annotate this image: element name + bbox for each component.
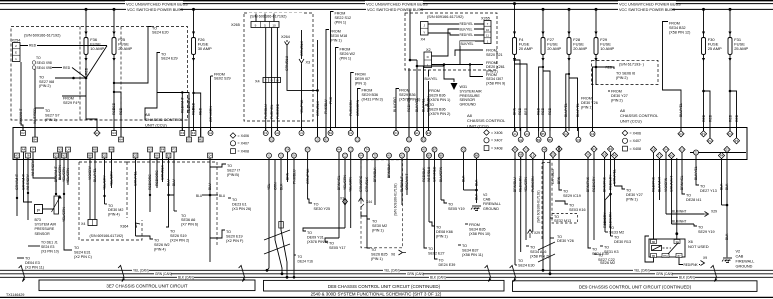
- svg-text:BLK/YEL: BLK/YEL: [415, 98, 419, 112]
- break mark on CAN buss: [19, 265, 25, 281]
- svg-text:SE30 M18: SE30 M18: [330, 34, 347, 38]
- svg-text:TO: TO: [569, 204, 574, 208]
- pin Y3 (X406 diamond): [523, 146, 529, 152]
- svg-text:TO: TO: [232, 198, 237, 202]
- pin M6 (X408 square): [109, 147, 114, 152]
- wire GRN/BLK mid: [366, 160, 368, 247]
- wire RED/GRN drop: [428, 70, 430, 130]
- wire out of pin Y1: [268, 156, 270, 160]
- pin J1 (X407 circle): [299, 131, 304, 136]
- svg-text:DE28 I41: DE28 I41: [686, 198, 701, 202]
- svg-text:TO: TO: [554, 215, 559, 219]
- node TO DE30 Y26: [550, 235, 574, 243]
- svg-text:D1: D1: [394, 131, 398, 135]
- svg-text:J8: J8: [27, 154, 30, 158]
- svg-text:(PIN 4): (PIN 4): [154, 247, 166, 251]
- pin inner right (circle): [694, 150, 699, 155]
- svg-text:A4: A4: [22, 148, 26, 152]
- svg-text:GRY/BLU: GRY/BLU: [551, 169, 555, 184]
- svg-text:(PIN 4): (PIN 4): [108, 213, 120, 217]
- svg-text:BLK: BLK: [475, 193, 479, 200]
- wire out of pin G6: [293, 156, 295, 160]
- wire into pin K3: [181, 128, 183, 134]
- svg-text:= X406: = X406: [491, 131, 503, 135]
- wire YEL/GRY 1: [104, 160, 106, 205]
- wire out of pin K6: [156, 156, 158, 160]
- svg-text:GRY/WHT: GRY/WHT: [15, 174, 19, 190]
- node TO DE30 R13: [611, 236, 632, 244]
- wire into pin C1: [350, 128, 352, 134]
- svg-text:M6: M6: [110, 148, 114, 152]
- svg-text:RED/GRN: RED/GRN: [519, 176, 523, 192]
- node TO SE34 A16: [526, 246, 549, 259]
- wire out of pin W2: [671, 156, 673, 160]
- pin C3 (X407 circle): [348, 147, 353, 152]
- svg-text:(X431 PIN 3): (X431 PIN 3): [362, 97, 383, 101]
- pin C2 (X407 circle): [343, 153, 348, 158]
- junction F26 branch: [192, 92, 194, 94]
- wire BLU 1: [169, 160, 175, 196]
- svg-text:W31: W31: [460, 85, 468, 89]
- wire out of pin J8: [27, 156, 29, 160]
- wire BRN/BLK short: [388, 160, 390, 179]
- wire PUR/GRN low: [532, 158, 534, 232]
- wire RED/GRY fork b: [610, 194, 612, 236]
- svg-text:C1: C1: [349, 131, 353, 135]
- wire relay 30 feed: [676, 158, 678, 240]
- wire RED/WHT drop2: [181, 93, 183, 131]
- svg-text:YEL/PNK: YEL/PNK: [300, 99, 304, 114]
- wire F36 drop: [86, 9, 97, 127]
- svg-text:TO: TO: [181, 214, 186, 218]
- svg-text:(PIN 1): (PIN 1): [330, 38, 342, 42]
- svg-text:SENSOR: SENSOR: [35, 232, 51, 236]
- wire out of pin B7: [434, 150, 436, 160]
- wire BLK/YEL drop2: [423, 66, 425, 137]
- wire GRN/WHT relay: [671, 158, 673, 224]
- wire BLU 2: [173, 160, 175, 196]
- svg-text:BLU: BLU: [172, 179, 176, 186]
- wire SE02 S29 drop: [210, 76, 212, 130]
- wire X3 drop: [301, 64, 303, 131]
- svg-text:RED/PNK: RED/PNK: [652, 176, 656, 192]
- wire GRN CAN drop: [275, 160, 282, 274]
- svg-text:DE04 E3: DE04 E3: [25, 261, 40, 265]
- svg-text:DE30 Y27: DE30 Y27: [611, 94, 628, 98]
- node FROM DE09 I07 (PIN 1): [351, 73, 370, 86]
- pin Q2 (X408 square): [102, 153, 107, 158]
- wire out of pin Y3: [525, 150, 527, 160]
- svg-text:RED: RED: [85, 67, 89, 75]
- svg-text:RED: RED: [192, 107, 196, 115]
- svg-text:TO SE06 I6: TO SE06 I6: [616, 72, 635, 76]
- svg-text:D1: D1: [592, 147, 596, 151]
- pin E4 (X406 diamond): [94, 130, 100, 136]
- wire SE29 X578 drop: [395, 91, 397, 130]
- svg-text:C2: C2: [343, 154, 347, 158]
- svg-text:(X579 PIN 2): (X579 PIN 2): [429, 112, 450, 116]
- svg-text:TO: TO: [598, 254, 603, 258]
- wire PNK/BLU long: [293, 160, 295, 278]
- junction below F28: [568, 73, 570, 75]
- junction X2 region a: [409, 59, 412, 62]
- wire out of pin L4: [67, 150, 69, 160]
- svg-text:J2: J2: [316, 138, 319, 142]
- svg-text:BLK (CAN): BLK (CAN): [430, 276, 446, 280]
- svg-text:T4: T4: [365, 148, 369, 152]
- svg-text:SE24 E29: SE24 E29: [161, 57, 178, 61]
- svg-text:ORG/GRN: ORG/GRN: [356, 99, 360, 116]
- wire F29 drop: [595, 9, 597, 85]
- pin V4 (X406 diamond): [663, 146, 669, 152]
- svg-text:NOT USED: NOT USED: [688, 244, 709, 249]
- svg-text:FROM: FROM: [486, 73, 497, 77]
- svg-text:TO: TO: [372, 220, 377, 224]
- svg-text:TO: TO: [298, 255, 303, 259]
- node TO SE24 E20: [148, 26, 169, 34]
- junction PNK/BLU can: [293, 276, 296, 279]
- pin E2 (X408 square): [166, 153, 171, 158]
- svg-text:RED: RED: [728, 114, 732, 122]
- wire out of pin S3: [726, 150, 728, 160]
- pin H4 (X407 circle): [337, 147, 342, 152]
- junction below F30: [702, 90, 705, 93]
- fuse F27: [541, 32, 562, 62]
- svg-text:Y6: Y6: [586, 153, 590, 157]
- svg-text:SE29 B36: SE29 B36: [399, 93, 416, 97]
- legend X406/X407/X408 (middle): [484, 130, 503, 151]
- wire BRN/BLK: [374, 160, 376, 206]
- svg-text:10 AMP: 10 AMP: [90, 46, 104, 51]
- svg-text:SE29 B36: SE29 B36: [429, 107, 446, 111]
- svg-text:(PIN 2): (PIN 2): [611, 98, 623, 102]
- pin B8 (X407 circle): [439, 153, 444, 158]
- svg-text:(X2 PIN F): (X2 PIN F): [226, 239, 243, 243]
- wire out of pin A3: [16, 156, 18, 160]
- wire YEL CAN drop: [267, 160, 269, 271]
- wire WHT/GRY 2: [33, 158, 56, 190]
- svg-text:SE29 IC19: SE29 IC19: [563, 194, 581, 198]
- svg-text:11: 11: [486, 34, 489, 38]
- svg-text:B2: B2: [324, 138, 328, 142]
- svg-text:BLK (CAN): BLK (CAN): [178, 276, 194, 280]
- svg-text:P: P: [37, 208, 40, 213]
- wire SE34 B32 drop: [663, 23, 682, 130]
- junction CAN yel: [266, 269, 269, 272]
- junction on switched buss: [568, 8, 571, 11]
- svg-text:TO: TO: [170, 230, 175, 234]
- svg-text:P6: P6: [613, 154, 617, 158]
- svg-text:(X58 PIN 10): (X58 PIN 10): [469, 232, 490, 236]
- svg-text:Q4: Q4: [208, 154, 212, 158]
- wire out of pin C3: [350, 150, 352, 160]
- wire X265 pin A drop: [265, 28, 267, 131]
- junction BLU tie: [209, 194, 212, 197]
- pin K1 (X408 square): [191, 131, 196, 136]
- pin J5 (X406 diamond): [556, 146, 562, 152]
- node FROM SE34 B35: [465, 223, 490, 236]
- border frame top: [0, 0, 773, 2]
- svg-text:SE26 W2: SE26 W2: [154, 243, 170, 247]
- node TO SE30 Y25: [314, 202, 331, 210]
- svg-text:TO: TO: [609, 226, 614, 230]
- wire RED diag to junction: [52, 66, 86, 78]
- wire WHT/BLU: [428, 160, 430, 223]
- node TO SE26 S19 (X24 PIN 2): [170, 230, 189, 243]
- wire into pin P1: [703, 128, 705, 134]
- svg-text:BLU: BLU: [196, 194, 203, 198]
- svg-text:VCC UNSWITCHED POWER BUSS: VCC UNSWITCHED POWER BUSS: [619, 2, 681, 6]
- pin T4 (X407 circle): [365, 147, 370, 152]
- dashed box S/N right: [542, 163, 552, 239]
- pin P1 (X406 diamond): [700, 131, 706, 137]
- svg-text:T5: T5: [373, 154, 377, 158]
- node TO DE24 E39: [435, 256, 456, 267]
- wire into pin A2: [520, 128, 522, 140]
- svg-text:= X407: = X407: [630, 139, 642, 143]
- svg-text:TO: TO: [557, 235, 562, 239]
- svg-text:87: 87: [677, 254, 681, 258]
- svg-text:X364: X364: [120, 224, 128, 228]
- svg-text:= X408: = X408: [238, 150, 250, 154]
- svg-text:PUR/WHT: PUR/WHT: [400, 176, 404, 192]
- junction sensor a: [16, 197, 18, 199]
- junction BLK r: [726, 204, 729, 207]
- svg-text:Q6: Q6: [652, 148, 656, 152]
- svg-text:WHT/GRY: WHT/GRY: [31, 159, 35, 176]
- svg-text:RED/BLK: RED/BLK: [422, 167, 426, 182]
- svg-text:(PIN 1): (PIN 1): [355, 81, 367, 85]
- svg-text:(X3 PIN 26): (X3 PIN 26): [232, 207, 251, 211]
- pin G1 (X407 circle): [208, 131, 213, 136]
- wire WHT/GRY 3: [94, 160, 96, 220]
- wire RED/BLK: [423, 160, 425, 246]
- svg-text:GRN/BLK: GRN/BLK: [161, 164, 165, 180]
- svg-text:TO: TO: [429, 103, 434, 107]
- wire VIO/GRY: [89, 160, 91, 220]
- pin B4 (X408 square): [33, 137, 38, 142]
- svg-text:TO: TO: [161, 52, 166, 56]
- svg-text:RED: RED: [63, 66, 71, 70]
- svg-text:G7: G7: [306, 148, 310, 152]
- wire GRY/WHT 2: [24, 158, 33, 202]
- svg-text:YEL/GRY: YEL/GRY: [110, 171, 114, 186]
- junction on switched buss: [113, 8, 116, 11]
- pin M1 (X407 circle): [405, 147, 410, 152]
- wire inner right: [690, 152, 746, 154]
- svg-text:BRN/YEL: BRN/YEL: [337, 175, 341, 190]
- wire out of pin U3: [681, 150, 683, 160]
- wire out of pin Y6: [587, 155, 589, 160]
- wire BRN/YEL relay: [681, 160, 683, 193]
- svg-text:BLK (CAN): BLK (CAN): [679, 276, 695, 280]
- svg-text:SE24 E3: SE24 E3: [41, 245, 54, 249]
- svg-text:X2: X2: [462, 148, 466, 152]
- junction CAN yel right: [542, 269, 545, 272]
- svg-text:X264: X264: [281, 35, 290, 39]
- svg-text:E3: E3: [427, 131, 431, 135]
- svg-text:BRN: BRN: [557, 176, 561, 184]
- wire into pin B4: [34, 128, 36, 140]
- svg-text:X265: X265: [231, 23, 240, 27]
- junction below F4: [513, 59, 515, 61]
- wire X265 pin B drop: [271, 28, 273, 138]
- svg-text:DE23 E1: DE23 E1: [232, 202, 247, 206]
- label RED (X254 pin2): [28, 43, 37, 48]
- pin D1 (X407 circle): [394, 131, 399, 136]
- wire branch of F27: [539, 67, 543, 131]
- wire ORG/YEL: [344, 160, 346, 229]
- svg-text:YEL/GRN: YEL/GRN: [349, 177, 353, 192]
- svg-text:RED: RED: [541, 107, 545, 115]
- wire branch of F30: [704, 91, 711, 137]
- pin J2 (X407 circle): [315, 137, 320, 142]
- junction BLU: [167, 194, 169, 196]
- svg-text:SE33 M2: SE33 M2: [609, 230, 624, 234]
- wire out of pin F3: [173, 150, 175, 160]
- wire out of pin X2: [463, 150, 465, 160]
- label BLK/YEL a: [459, 27, 474, 32]
- svg-text:= X408: = X408: [491, 147, 503, 151]
- wire out of pin Q2: [104, 156, 106, 160]
- junction below F27: [542, 66, 544, 68]
- svg-text:(S/N 609166-617192): (S/N 609166-617192): [427, 15, 464, 19]
- pin B6 (X407 circle): [548, 137, 553, 142]
- connector X3 inline: [340, 197, 348, 206]
- connector X4: [421, 22, 429, 42]
- wire TO SE27 I68 tie: [55, 77, 86, 79]
- node TO DE24 Y16: [294, 255, 313, 264]
- svg-text:YEL/GRN: YEL/GRN: [524, 177, 528, 192]
- node TO DE09 Y31: [303, 228, 345, 244]
- node TO DE28 I41: [682, 192, 701, 202]
- node TO SE34 B37: [458, 244, 483, 257]
- label YEL (CAN): [633, 268, 650, 273]
- svg-text:(X578 PIN 1): (X578 PIN 1): [429, 98, 450, 102]
- node TO SE27 I7 (PIN B): [210, 164, 240, 177]
- node TO SE24 E29: [157, 52, 178, 60]
- svg-text:RED: RED: [112, 107, 116, 115]
- pin Q1 (X408 square): [54, 153, 59, 158]
- node FROM SE34 I307 (X58 PIN 9): [469, 63, 505, 85]
- svg-text:B8: B8: [439, 154, 443, 158]
- junction sensor b: [27, 192, 29, 194]
- wire into pin F1: [265, 128, 267, 134]
- svg-text:SE29 Y19: SE29 Y19: [698, 230, 715, 234]
- svg-text:K4: K4: [564, 132, 568, 136]
- svg-text:20 AMP: 20 AMP: [118, 46, 132, 51]
- svg-text:RED/ORG: RED/ORG: [148, 174, 152, 190]
- junction YEL/GRN: [63, 193, 65, 195]
- node FROM SE26 W2 (PIN 1): [336, 48, 356, 61]
- wire BLK/YEL inner: [695, 155, 697, 183]
- node TO DE08 K66: [429, 222, 453, 238]
- svg-text:PUR/GRN: PUR/GRN: [349, 100, 353, 116]
- node TO SE29 Y19: [694, 224, 715, 234]
- svg-text:(PIN 1): (PIN 1): [335, 20, 347, 24]
- wire F28 drop: [568, 9, 570, 131]
- pin X2 (X407 circle): [461, 147, 466, 152]
- svg-text:TO: TO: [626, 189, 631, 193]
- pin A3 (X408 square): [15, 153, 20, 158]
- svg-text:PRESSURE: PRESSURE: [460, 94, 481, 98]
- svg-text:CAB: CAB: [736, 254, 744, 258]
- pin F1 (X407 circle): [263, 131, 268, 136]
- svg-text:BRN/BLK: BRN/BLK: [387, 163, 391, 178]
- svg-text:N3: N3: [58, 148, 62, 152]
- junction BLK: [475, 189, 478, 192]
- node TO SE31 K3: [600, 246, 619, 254]
- pin E1 (X407 circle): [415, 131, 420, 136]
- wire into pin J2: [317, 128, 319, 140]
- svg-text:20 AMP: 20 AMP: [547, 46, 561, 51]
- svg-text:(PIN 1): (PIN 1): [436, 234, 448, 238]
- node - VCC UNSWITCHED POWER BUSS label: [125, 1, 188, 6]
- svg-text:(X2 PIN C): (X2 PIN C): [74, 255, 92, 259]
- svg-text:RED: RED: [606, 66, 613, 70]
- wire into pin G3: [113, 128, 115, 134]
- svg-text:RED: RED: [548, 107, 552, 115]
- wire out of pin A2: [401, 156, 403, 160]
- svg-text:B6: B6: [475, 154, 479, 158]
- wire relay 87 out: [679, 258, 700, 265]
- svg-text:K2: K2: [21, 131, 25, 135]
- pin L6 (X406 diamond): [530, 152, 536, 158]
- svg-text:SE36 A6: SE36 A6: [181, 218, 195, 222]
- wire out of pin F4: [162, 150, 164, 160]
- node FROM SE29 B36 (X431): [358, 89, 383, 102]
- legend X406/X407/X408 (right): [622, 130, 641, 151]
- pin B1 (X407 circle): [328, 131, 333, 136]
- svg-text:DE20 X261: DE20 X261: [486, 65, 505, 69]
- junction RED/ORG: [149, 194, 151, 196]
- wire YEL/GRN low: [525, 158, 527, 240]
- svg-text:SE32 M13: SE32 M13: [554, 219, 571, 223]
- node TO SE20 E19 (X2 PIN F): [210, 230, 243, 243]
- wire YEL CAN buss: [0, 269, 773, 271]
- wire BLK g1: [463, 160, 465, 191]
- svg-text:TO: TO: [518, 259, 523, 263]
- svg-text:H3: H3: [148, 148, 152, 152]
- wire GRN/PNK: [338, 160, 340, 239]
- wire GRN/BLK V2: [317, 40, 319, 137]
- svg-text:M8: M8: [93, 148, 97, 152]
- svg-text:(X3 PIN 11): (X3 PIN 11): [25, 265, 44, 269]
- svg-text:BLK/YEL: BLK/YEL: [460, 27, 473, 31]
- svg-text:SE26 W2: SE26 W2: [340, 52, 356, 56]
- node TO SE04 E3 (X3 PIN 11): [17, 257, 44, 270]
- svg-text:Q2: Q2: [103, 154, 107, 158]
- svg-text:GRN/BLU: GRN/BLU: [285, 55, 289, 71]
- svg-text:G3: G3: [112, 131, 116, 135]
- svg-text:DE08 K66: DE08 K66: [436, 230, 453, 234]
- svg-text:DE30 Y26: DE30 Y26: [557, 239, 574, 243]
- svg-text:B1: B1: [329, 131, 333, 135]
- wire out of pin J5: [558, 149, 560, 160]
- svg-text:VIO/GRN: VIO/GRN: [664, 177, 668, 192]
- node - VCC SWITCHED POWER BUSS label: [618, 7, 676, 12]
- svg-text:TO: TO: [530, 246, 535, 250]
- svg-text:DE24 Y16: DE24 Y16: [298, 260, 314, 264]
- svg-text:F4: F4: [161, 148, 165, 152]
- svg-text:TO: TO: [371, 248, 376, 252]
- junction on switched buss: [595, 8, 598, 11]
- module A8 CCU outline: [13, 128, 747, 160]
- fuse F36: [84, 32, 105, 62]
- svg-text:SE29 F4: SE29 F4: [63, 101, 77, 105]
- svg-text:(X3 PIN 10): (X3 PIN 10): [41, 250, 59, 254]
- svg-text:SE44 X98: SE44 X98: [37, 66, 52, 70]
